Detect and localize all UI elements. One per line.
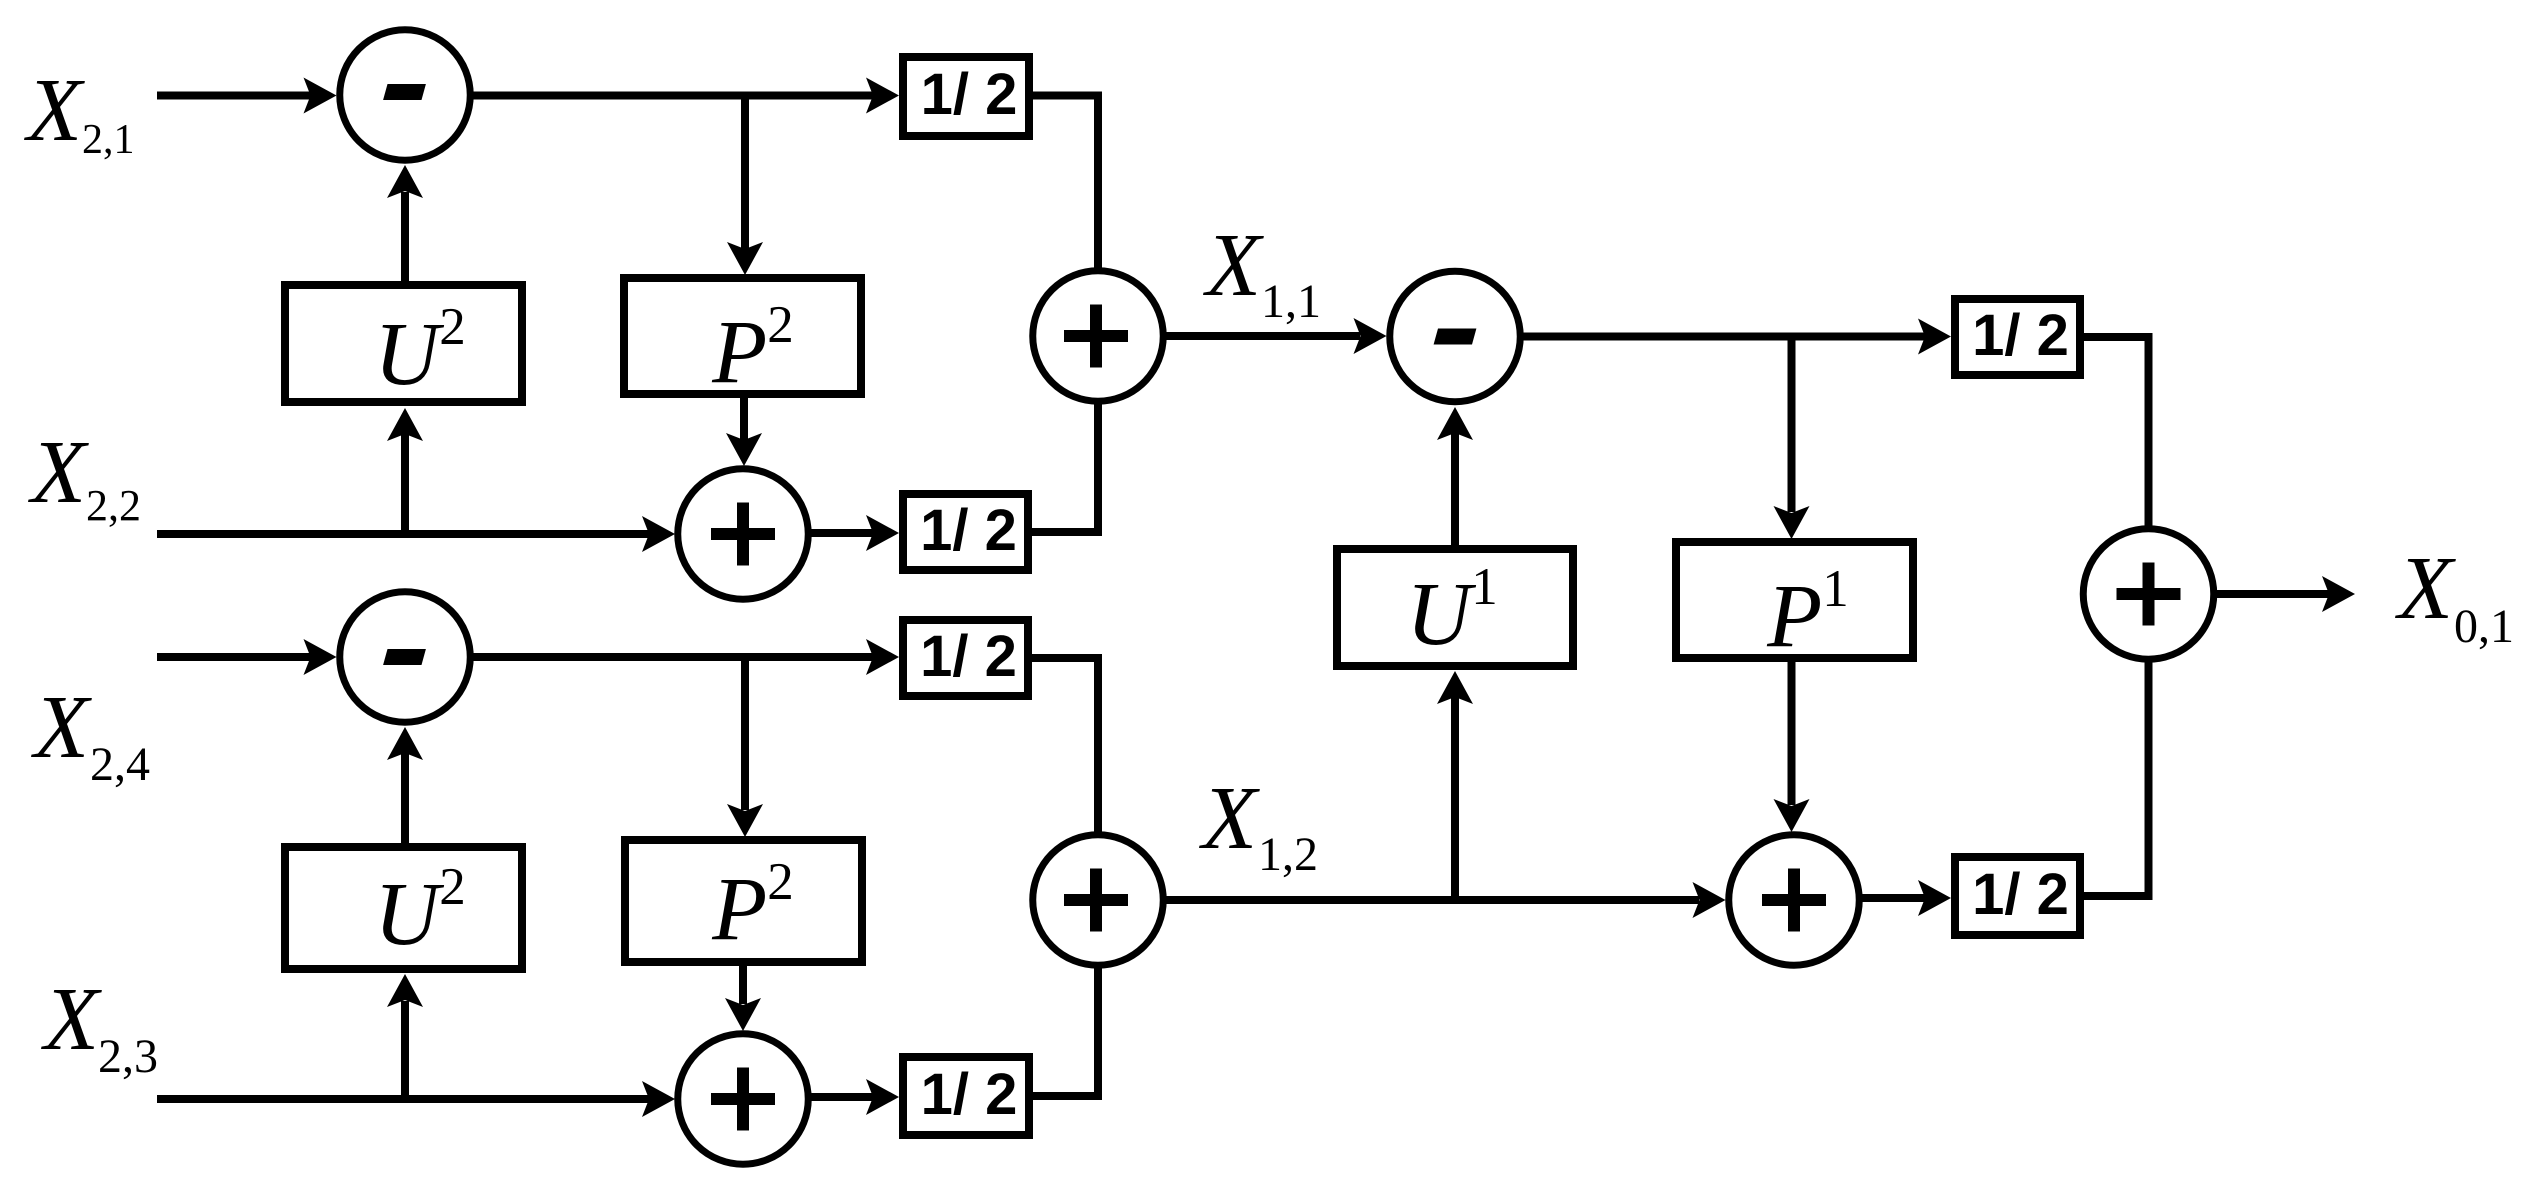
svg-text:X2,2: X2,2: [28, 423, 141, 530]
wire branch X2,2 to U2a: [387, 408, 423, 534]
svg-text:1/ 2: 1/ 2: [920, 624, 1017, 689]
scaler H4 (1/2): [903, 1057, 1029, 1135]
wire branch node to predictor P2b: [727, 657, 763, 837]
svg-text:1/ 2: 1/ 2: [920, 498, 1017, 563]
wire X2,3 input to adder A2: [157, 1081, 675, 1117]
wire A4 output X1,2 to adder A5: [1166, 882, 1726, 918]
subtractor S2 (lower-left): [340, 592, 471, 723]
svg-text:X1,1: X1,1: [1203, 216, 1321, 328]
adder A3 (node X1,1 source): [1033, 271, 1164, 402]
svg-text:1/ 2: 1/ 2: [921, 62, 1018, 127]
block U2a (update filter): [285, 285, 522, 404]
adder A6 (output): [2083, 529, 2214, 660]
wire U2b output to S2: [387, 727, 423, 843]
wire U1 output to S3: [1437, 407, 1473, 545]
wire H1 to adder A3: [1033, 96, 1098, 268]
wire H3 to adder A4: [1032, 658, 1098, 832]
wire S2 output to scaler H3: [474, 639, 900, 675]
subtractor S3 (right): [1390, 271, 1521, 402]
block P2b (predict filter): [625, 840, 862, 962]
wire H2 to adder A3: [1032, 405, 1098, 533]
scaler H6 (1/2): [1955, 857, 2080, 935]
wire A1 output to scaler H2: [812, 515, 900, 551]
adder A1: [678, 469, 809, 600]
wire A2 output to scaler H4: [812, 1079, 900, 1115]
node X2,3 input label: [41, 970, 158, 1083]
svg-text:1/ 2: 1/ 2: [1972, 862, 2069, 927]
wire X2,1 input to subtractor S1: [157, 78, 337, 114]
adder A2: [678, 1034, 809, 1165]
wire A5 output to scaler H6: [1863, 880, 1952, 916]
svg-text:1/ 2: 1/ 2: [921, 1062, 1018, 1127]
wire S1 output to scaler H1: [474, 78, 900, 114]
node X1,2 label: [1199, 769, 1318, 881]
block U2b (update filter): [285, 847, 522, 969]
scaler H2 (1/2): [903, 494, 1028, 570]
adder A5 (bottom right): [1729, 835, 1860, 966]
scaler H1 (1/2): [903, 57, 1029, 136]
wire branch node to predictor P2a: [727, 96, 763, 276]
scaler H3 (1/2): [903, 620, 1028, 696]
wire X2,2 input to adder A1: [157, 516, 675, 552]
wire H5 to adder A6: [2084, 337, 2149, 526]
node X1,1 label: [1203, 216, 1321, 328]
wire A6 output to X0,1: [2217, 576, 2355, 612]
svg-text:X1,2: X1,2: [1199, 769, 1318, 881]
node X0,1 output label: [2395, 539, 2514, 653]
wire P2a output to adder A1: [726, 398, 762, 466]
node X2,2 input label: [28, 423, 141, 530]
svg-text:X2,4: X2,4: [31, 678, 150, 791]
wire X2,4 input to subtractor S2: [157, 639, 337, 675]
wire U2a output to S1: [387, 165, 423, 281]
adder A4 (node X1,2 source): [1033, 835, 1164, 966]
wire P2b output to adder A2: [725, 966, 761, 1031]
wire H4 to adder A4: [1033, 969, 1098, 1097]
node X2,4 input label: [31, 678, 150, 791]
block P1 (predict filter): [1676, 542, 1913, 666]
svg-text:X2,1: X2,1: [24, 61, 134, 163]
wire H6 to adder A6: [2084, 663, 2149, 897]
svg-text:X2,3: X2,3: [41, 970, 158, 1083]
wire branch node to predictor P1: [1774, 337, 1810, 540]
wire A3 output X1,1 to subtractor S3: [1166, 318, 1387, 354]
svg-text:X0,1: X0,1: [2395, 539, 2514, 653]
node X2,1 input label: [24, 61, 134, 163]
wire branch X2,3 to U2b: [387, 974, 423, 1099]
scaler H5 (1/2): [1955, 299, 2080, 375]
wire S3 output to scaler H5: [1524, 319, 1952, 355]
wire P1 output to adder A5: [1774, 662, 1810, 832]
block U1 (update filter): [1337, 549, 1573, 666]
svg-text:1/ 2: 1/ 2: [1972, 303, 2069, 368]
wire branch X1,2 to U1: [1437, 671, 1473, 900]
block P2a (predict filter): [624, 278, 861, 402]
subtractor S1 (top-left): [340, 30, 471, 161]
